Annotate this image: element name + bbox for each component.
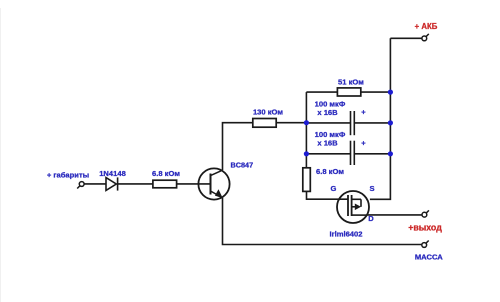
- drain wire to ВЫХОД terminal: [368, 214, 423, 216]
- svg-text:+ АКБ: + АКБ: [415, 22, 438, 31]
- arrow of M1: [355, 204, 361, 211]
- junction node rail-left/130k: [304, 120, 309, 125]
- left rail vertical: [305, 92, 307, 168]
- svg-text:+: +: [361, 139, 366, 148]
- wire terminal to diode: [84, 183, 106, 185]
- terminal X1 "+ габариты": [77, 182, 84, 189]
- wire diode to R1: [118, 183, 153, 185]
- emitter wire down and МАССА wire: [223, 198, 422, 245]
- svg-text:51 кОм: 51 кОм: [338, 77, 364, 86]
- svg-text:6.8 кОм: 6.8 кОм: [152, 169, 180, 178]
- MOSFET M1 Irlml6402: [337, 191, 369, 223]
- emitter arrow of Q1: [215, 189, 223, 198]
- svg-text:+ габариты: + габариты: [47, 170, 89, 179]
- wire left rail to R3: [306, 91, 337, 93]
- resistor R4 6.8 кОм vertical: [303, 168, 311, 192]
- svg-text:Irlml6402: Irlml6402: [330, 229, 363, 238]
- wire R2 to left rail: [276, 122, 306, 124]
- capacitor C2 100 мкФ x 16В: [306, 141, 390, 165]
- svg-text:S: S: [369, 184, 374, 193]
- svg-text:+: +: [361, 108, 366, 117]
- terminal X4 МАССА: [422, 241, 429, 248]
- terminal X2 АКБ: [422, 34, 429, 41]
- junction node rail-left/C2: [304, 151, 309, 156]
- junction node rail-right/C1: [388, 120, 393, 125]
- transistor Q1 BC847: [198, 168, 229, 199]
- wire R4 to gate: [307, 191, 349, 199]
- wire R1 to Q1 base: [177, 183, 211, 185]
- svg-text:х 16В: х 16В: [317, 139, 338, 148]
- svg-text:BC847: BC847: [230, 160, 253, 169]
- svg-text:МАССА: МАССА: [415, 252, 443, 261]
- capacitor C1 100 мкФ x 16В: [306, 111, 390, 135]
- svg-text:130 кОм: 130 кОм: [253, 108, 283, 117]
- resistor R3 51 кОм: [337, 88, 360, 96]
- junction node rail-right/51k: [388, 90, 393, 95]
- right rail from АКБ down to source: [370, 38, 391, 199]
- svg-text:G: G: [331, 184, 337, 193]
- svg-text:1N4148: 1N4148: [99, 169, 126, 178]
- wire to АКБ terminal: [390, 37, 422, 39]
- junction node rail-right/C2: [388, 151, 393, 156]
- diode D1 1N4148: [106, 177, 118, 190]
- wire collector up: [223, 123, 253, 170]
- terminal X3 ВЫХОД: [422, 210, 429, 217]
- svg-text:+выход: +выход: [408, 223, 442, 233]
- wire R3 to right rail: [361, 91, 391, 93]
- svg-text:6.8 кОм: 6.8 кОм: [316, 167, 344, 176]
- resistor R2 130 кОм: [253, 119, 276, 128]
- resistor R1 6.8 кОм: [153, 180, 177, 188]
- svg-text:х 16В: х 16В: [317, 108, 338, 117]
